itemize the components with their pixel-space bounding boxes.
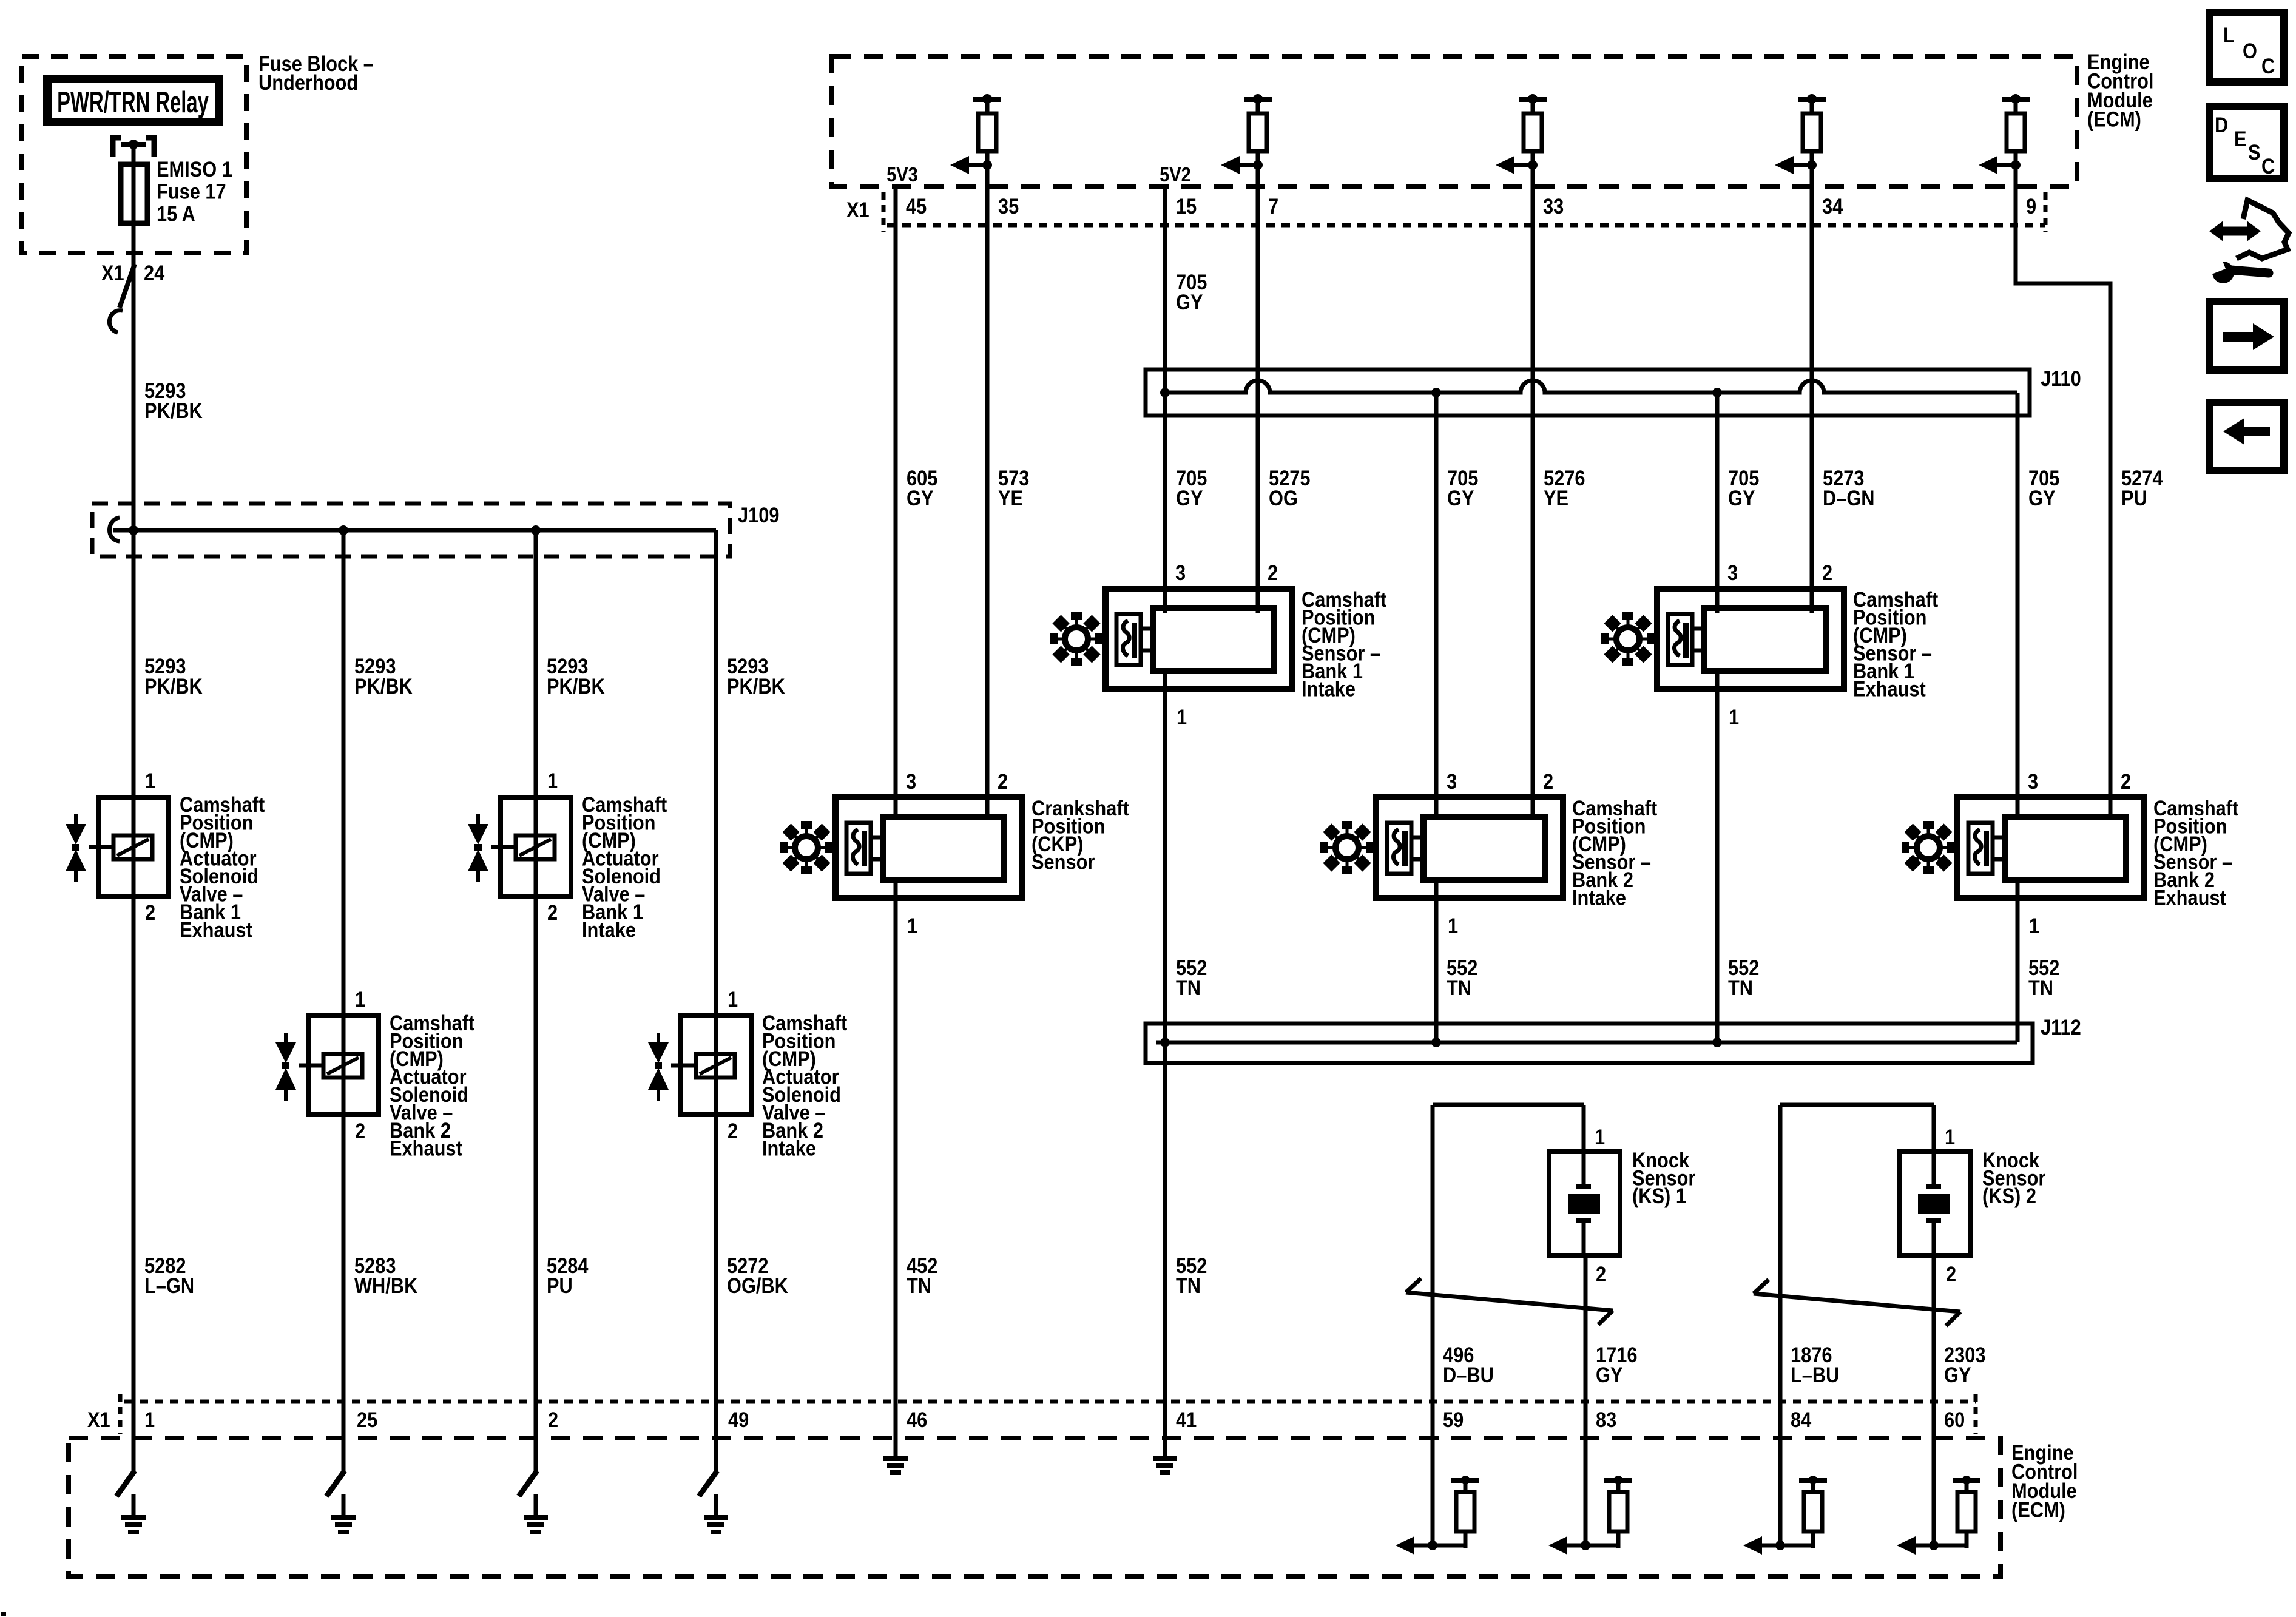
svg-text:X1: X1 xyxy=(87,1408,110,1431)
svg-text:2: 2 xyxy=(1822,561,1832,584)
resistor (ECM internal pull-up at pin 9) with arrow xyxy=(1979,94,2030,174)
svg-text:X1: X1 xyxy=(101,261,124,285)
svg-text:35: 35 xyxy=(998,194,1019,218)
svg-text:1: 1 xyxy=(1595,1125,1605,1149)
wire: relay through fuse, X1-24, J109, CMP actuator solenoid valve B1 exhaust, to ECM pin 1 xyxy=(132,144,136,1471)
CMP sensor bank 1 exhaust (sensor element + housing) xyxy=(1657,589,1844,689)
wire 552 TN: CMP B1 exhaust pin 1 to J112 xyxy=(1715,671,1720,1042)
svg-text:KnockSensor(KS) 2: KnockSensor(KS) 2 xyxy=(1982,1148,2046,1207)
wire 1716 GY: knock sensor 1 pin 2 to ECM pin 83 xyxy=(1584,1255,1588,1545)
svg-text:3: 3 xyxy=(1727,561,1738,584)
svg-text:3: 3 xyxy=(1175,561,1186,584)
wire labels 5293 PK/BK (four branches below J109) xyxy=(144,654,785,698)
wire: J109 to CMP actuator solenoid valve B2 exhaust to ECM pin 25 xyxy=(342,530,346,1471)
icon: connector service (double arrow + wrench) xyxy=(2206,200,2289,283)
svg-text:705GY: 705GY xyxy=(2028,466,2059,510)
gear icon (CMP sensor bank 2 exhaust) xyxy=(1902,821,1955,874)
knock sensor KS2 (piezo element) xyxy=(1899,1152,1970,1255)
ECM X1 connector row (bottom, dotted) xyxy=(120,1394,1976,1434)
svg-text:705GY: 705GY xyxy=(1176,270,1207,314)
junction: J110 dot branch to CMP B2 intake pin 3 xyxy=(1431,388,1441,397)
svg-text:3: 3 xyxy=(2028,769,2038,793)
svg-text:KnockSensor(KS) 1: KnockSensor(KS) 1 xyxy=(1632,1148,1696,1207)
gear icon (CMP sensor bank 1 intake) xyxy=(1050,612,1103,666)
junction: J110 dot branch to CMP B1 exhaust pin 3 xyxy=(1712,388,1722,397)
ECM driver switch (pin 1) xyxy=(116,1471,135,1496)
splice pack J109 (dashed box with bus) xyxy=(92,504,730,556)
svg-text:33: 33 xyxy=(1543,194,1564,218)
svg-text:84: 84 xyxy=(1791,1408,1812,1431)
ground (pin 49) xyxy=(704,1494,728,1534)
svg-text:C: C xyxy=(2261,54,2275,78)
svg-text:59: 59 xyxy=(1443,1408,1464,1431)
wire 1876 L-BU: ECM pin 84 to knock sensor 2 pin 1 (hood) xyxy=(1780,1105,1934,1545)
resistor (ECM internal pull-up at pin 7) with arrow xyxy=(1221,94,1272,174)
svg-text:45: 45 xyxy=(906,194,927,218)
wire 5274 PU: ECM pin 9 to CMP B2 exhaust sensor pin 2 (with jog) xyxy=(2016,165,2110,820)
wire: J109 to CMP actuator solenoid valve B2 intake to ECM pin 49 xyxy=(714,530,718,1471)
resistor (ECM internal at pin 59) with arrow xyxy=(1396,1476,1479,1555)
CMP actuator solenoid valve - B2 intake (coil + valve symbol) xyxy=(648,1016,751,1115)
svg-text:2: 2 xyxy=(1543,769,1553,793)
junction: J109 dot at actuator B2 exhaust wire xyxy=(339,525,348,535)
svg-text:1: 1 xyxy=(1945,1125,1955,1149)
splice pack J110 (5V reference distribution) xyxy=(1146,370,2030,416)
svg-text:Fuse Block –Underhood: Fuse Block –Underhood xyxy=(258,52,374,94)
svg-text:1: 1 xyxy=(1177,705,1187,729)
fuse block - underhood (dashed outline) xyxy=(22,56,246,253)
CMP sensor bank 1 intake (sensor element + housing) xyxy=(1106,589,1292,689)
ground (pin 2) xyxy=(524,1494,548,1534)
svg-text:705GY: 705GY xyxy=(1176,466,1207,510)
svg-text:2: 2 xyxy=(145,900,155,924)
svg-text:25: 25 xyxy=(357,1408,377,1431)
svg-text:34: 34 xyxy=(1822,194,1843,218)
gear icon (CMP sensor bank 1 exhaust) xyxy=(1601,612,1655,666)
svg-text:1: 1 xyxy=(355,987,365,1011)
svg-text:PWR/TRN Relay: PWR/TRN Relay xyxy=(57,85,209,118)
svg-text:E: E xyxy=(2234,127,2247,150)
svg-text:705GY: 705GY xyxy=(1447,466,1478,510)
svg-text:2: 2 xyxy=(1596,1262,1606,1286)
svg-text:5V3: 5V3 xyxy=(886,163,918,186)
svg-text:1876L–BU: 1876L–BU xyxy=(1791,1343,1839,1386)
svg-text:3: 3 xyxy=(906,769,916,793)
wire 705 GY: J110 to CMP B2 exhaust sensor pin 3 xyxy=(2016,393,2020,820)
splice pack J112 (low reference collector) xyxy=(1146,1024,2033,1063)
resistor (ECM internal at pin 83) with arrow xyxy=(1548,1476,1632,1555)
gear icon (crankshaft position CKP sensor) xyxy=(780,821,833,874)
svg-text:J110: J110 xyxy=(2041,366,2081,390)
svg-text:S: S xyxy=(2248,140,2261,164)
ground (pin 41) xyxy=(1153,1456,1177,1475)
svg-text:2: 2 xyxy=(998,769,1008,793)
svg-text:2: 2 xyxy=(355,1119,365,1143)
wire labels (knock sensor circuits) xyxy=(1443,1343,1985,1386)
fuse EMISO 1 / Fuse 17 / 15 A xyxy=(121,164,147,223)
resistor (ECM internal pull-up at pin 34) with arrow xyxy=(1775,94,1826,174)
svg-text:2: 2 xyxy=(548,1408,558,1431)
gear icon (CMP sensor bank 2 intake) xyxy=(1320,821,1374,874)
crankshaft position CKP sensor (sensor element + housing) xyxy=(836,797,1022,898)
wire labels above bottom ECM row (left) xyxy=(144,1254,1207,1297)
wire: J109 to CMP actuator solenoid valve B1 intake to ECM pin 2 xyxy=(534,530,538,1471)
icon box: LOC xyxy=(2209,13,2284,82)
svg-text:49: 49 xyxy=(728,1408,749,1431)
knock sensor KS1 (piezo element) xyxy=(1549,1152,1620,1255)
CMP sensor bank 2 intake (sensor element + housing) xyxy=(1376,797,1563,898)
svg-text:CamshaftPosition(CMP)ActuatorS: CamshaftPosition(CMP)ActuatorSolenoidVal… xyxy=(390,1011,474,1160)
svg-text:2: 2 xyxy=(2121,769,2131,793)
svg-text:1: 1 xyxy=(1729,705,1739,729)
svg-text:1: 1 xyxy=(1448,914,1458,937)
junction: J112 dot at CMP B2 intake pin 1 xyxy=(1431,1038,1441,1047)
wire 5273 D-GN: ECM pin 34 to CMP B1 exhaust sensor pin 2 xyxy=(1810,165,1814,613)
engine control module ECM (bottom dashed box) xyxy=(69,1438,2001,1576)
wire 552 TN: CMP B2 intake pin 1 to J112 xyxy=(1434,880,1439,1042)
svg-text:83: 83 xyxy=(1596,1408,1616,1431)
ECM X1 connector row (top, dotted) xyxy=(883,192,2045,232)
svg-text:15: 15 xyxy=(1176,194,1197,218)
svg-text:2: 2 xyxy=(547,900,558,924)
wire 5275 OG: ECM pin 7 to CMP B1 intake sensor pin 2 xyxy=(1256,165,1260,613)
svg-text:O: O xyxy=(2243,39,2257,62)
svg-text:J109: J109 xyxy=(738,503,779,527)
CMP actuator solenoid valve - B2 exhaust (coil + valve symbol) xyxy=(275,1016,379,1115)
relay PWR/TRN Relay (fuse block) xyxy=(47,79,219,122)
icon box: arrow right (continued) xyxy=(2209,302,2284,370)
svg-text:CamshaftPosition(CMP)ActuatorS: CamshaftPosition(CMP)ActuatorSolenoidVal… xyxy=(180,792,265,942)
svg-text:L: L xyxy=(2223,23,2235,47)
svg-text:D: D xyxy=(2215,113,2228,137)
twisted pair symbol (496 D-BU / 1716 GY) xyxy=(1406,1278,1613,1325)
wire 573 YE: ECM pin 35 to CKP sensor pin 2 xyxy=(985,165,990,820)
svg-text:46: 46 xyxy=(907,1408,927,1431)
wire 705 GY: J110 to CMP B2 intake sensor pin 3 xyxy=(1434,393,1439,820)
wire 605 GY: ECM pin 45 (5V3) to CKP sensor pin 3 xyxy=(894,186,898,820)
resistor (ECM internal pull-up at pin 35) with arrow xyxy=(950,94,1001,174)
ground (pin 1) xyxy=(121,1494,146,1534)
CMP actuator solenoid valve - B1 exhaust (coil + valve symbol) xyxy=(66,797,169,896)
wire 552 TN: CMP B2 exhaust pin 1 to J112 xyxy=(2016,880,2020,1042)
svg-text:2: 2 xyxy=(728,1119,738,1143)
wire 5276 YE: ECM pin 33 to CMP B2 intake sensor pin 2 xyxy=(1531,165,1535,820)
relay contact terminals xyxy=(113,138,154,157)
svg-text:1: 1 xyxy=(547,769,558,792)
ground (pin 25) xyxy=(331,1494,356,1534)
resistor (ECM internal at pin 84) with arrow xyxy=(1743,1476,1827,1555)
icon box: DESC xyxy=(2209,107,2284,178)
junction: J112 dot at CMP B1 exhaust pin 1 xyxy=(1712,1038,1722,1047)
wire 705 GY: ECM pin 15 (5V2) to J110 to CMP B1 intake sensor pin 3 xyxy=(1163,186,1167,613)
junction: J110 dot at pin-15 wire xyxy=(1160,388,1170,397)
svg-text:9: 9 xyxy=(2026,194,2036,218)
wire 2303 GY: knock sensor 2 pin 2 to ECM pin 60 xyxy=(1932,1255,1936,1545)
wire labels 552 TN above J112 xyxy=(1176,956,2059,999)
svg-text:3: 3 xyxy=(1447,769,1457,793)
svg-text:J112: J112 xyxy=(2041,1015,2081,1039)
resistor (ECM internal pull-up at pin 33) with arrow xyxy=(1496,94,1547,174)
CMP sensor bank 2 exhaust (sensor element + housing) xyxy=(1957,797,2144,898)
svg-text:60: 60 xyxy=(1944,1408,1965,1431)
junction: J109 dot at actuator B1 intake wire xyxy=(531,525,541,535)
connector X1 pin 24 (inline terminal symbol) xyxy=(109,264,135,333)
svg-text:CamshaftPosition(CMP)Sensor –B: CamshaftPosition(CMP)Sensor –Bank 1Exhau… xyxy=(1853,587,1938,701)
svg-text:CamshaftPosition(CMP)Sensor –B: CamshaftPosition(CMP)Sensor –Bank 2Exhau… xyxy=(2153,796,2238,910)
svg-text:C: C xyxy=(2261,154,2275,178)
engine control module ECM (top dashed box) xyxy=(832,56,2077,186)
junction: J109 dot at actuator B1 exhaust wire xyxy=(129,525,138,535)
ground (pin 46) xyxy=(883,1456,908,1475)
wire 552 TN: CMP B1 intake pin 1 through J112 to ECM pin 41 xyxy=(1163,671,1167,1459)
svg-text:X1: X1 xyxy=(846,198,869,221)
svg-text:41: 41 xyxy=(1176,1408,1197,1431)
CMP actuator solenoid valve - B1 intake (coil + valve symbol) xyxy=(468,797,571,896)
svg-text:2: 2 xyxy=(1268,561,1278,584)
wire labels below J110 xyxy=(907,466,2163,510)
svg-text:605GY: 605GY xyxy=(907,466,937,510)
twisted pair symbol (1876 L-BU / 2303 GY) xyxy=(1754,1280,1960,1326)
ECM driver switch (pin 2) xyxy=(519,1471,537,1496)
icon box: arrow left (continued) xyxy=(2209,402,2284,471)
wire 705 GY: J110 to CMP B1 exhaust sensor pin 3 xyxy=(1715,393,1720,613)
ECM driver switch (pin 49) xyxy=(699,1471,717,1496)
label: X1 24 (connector pin) xyxy=(101,261,165,285)
ECM driver switch (pin 25) xyxy=(326,1471,345,1496)
svg-text:1: 1 xyxy=(728,987,738,1011)
svg-text:7: 7 xyxy=(1268,194,1278,218)
svg-text:705GY: 705GY xyxy=(1728,466,1759,510)
wire 452 TN: CKP sensor pin 1 to ECM pin 46 xyxy=(894,880,898,1459)
wire 496 D-BU: ECM pin 59 to knock sensor 1 pin 1 (hood) xyxy=(1433,1105,1584,1545)
svg-text:5V2: 5V2 xyxy=(1160,163,1191,186)
svg-text:1: 1 xyxy=(2029,914,2039,937)
svg-text:2: 2 xyxy=(1946,1262,1956,1286)
svg-text:1: 1 xyxy=(144,1408,155,1431)
page corner mark xyxy=(1,1612,6,1616)
svg-text:1: 1 xyxy=(145,769,155,792)
junction: J112 dot at ECM pin-41 wire xyxy=(1160,1038,1170,1047)
svg-text:1: 1 xyxy=(907,914,917,937)
svg-text:24: 24 xyxy=(144,261,165,285)
resistor (ECM internal at pin 60) with arrow xyxy=(1897,1476,1980,1555)
